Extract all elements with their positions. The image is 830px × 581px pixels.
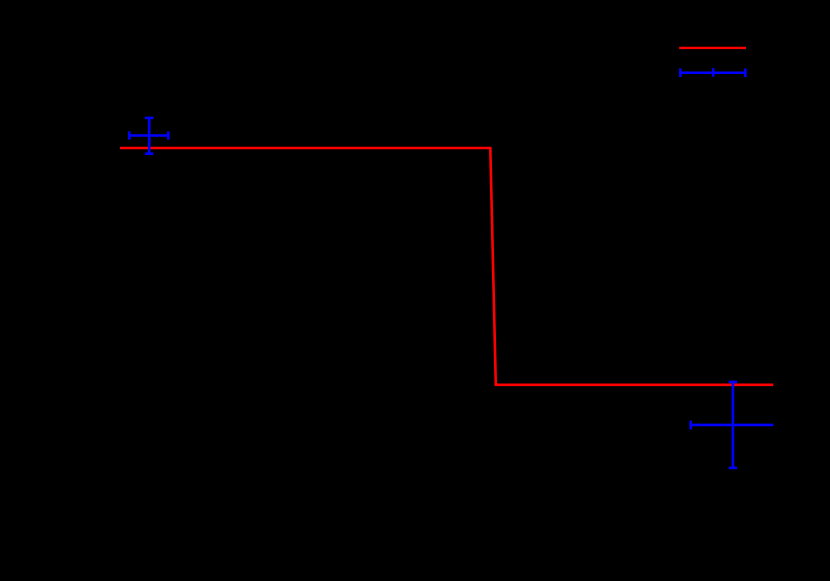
legend red line sample xyxy=(679,47,746,49)
legend blue errorbar sample xyxy=(680,68,745,77)
red step curve xyxy=(120,148,773,385)
blue errorbar point 1 xyxy=(129,118,168,154)
blue errorbar point 2 xyxy=(691,382,774,468)
